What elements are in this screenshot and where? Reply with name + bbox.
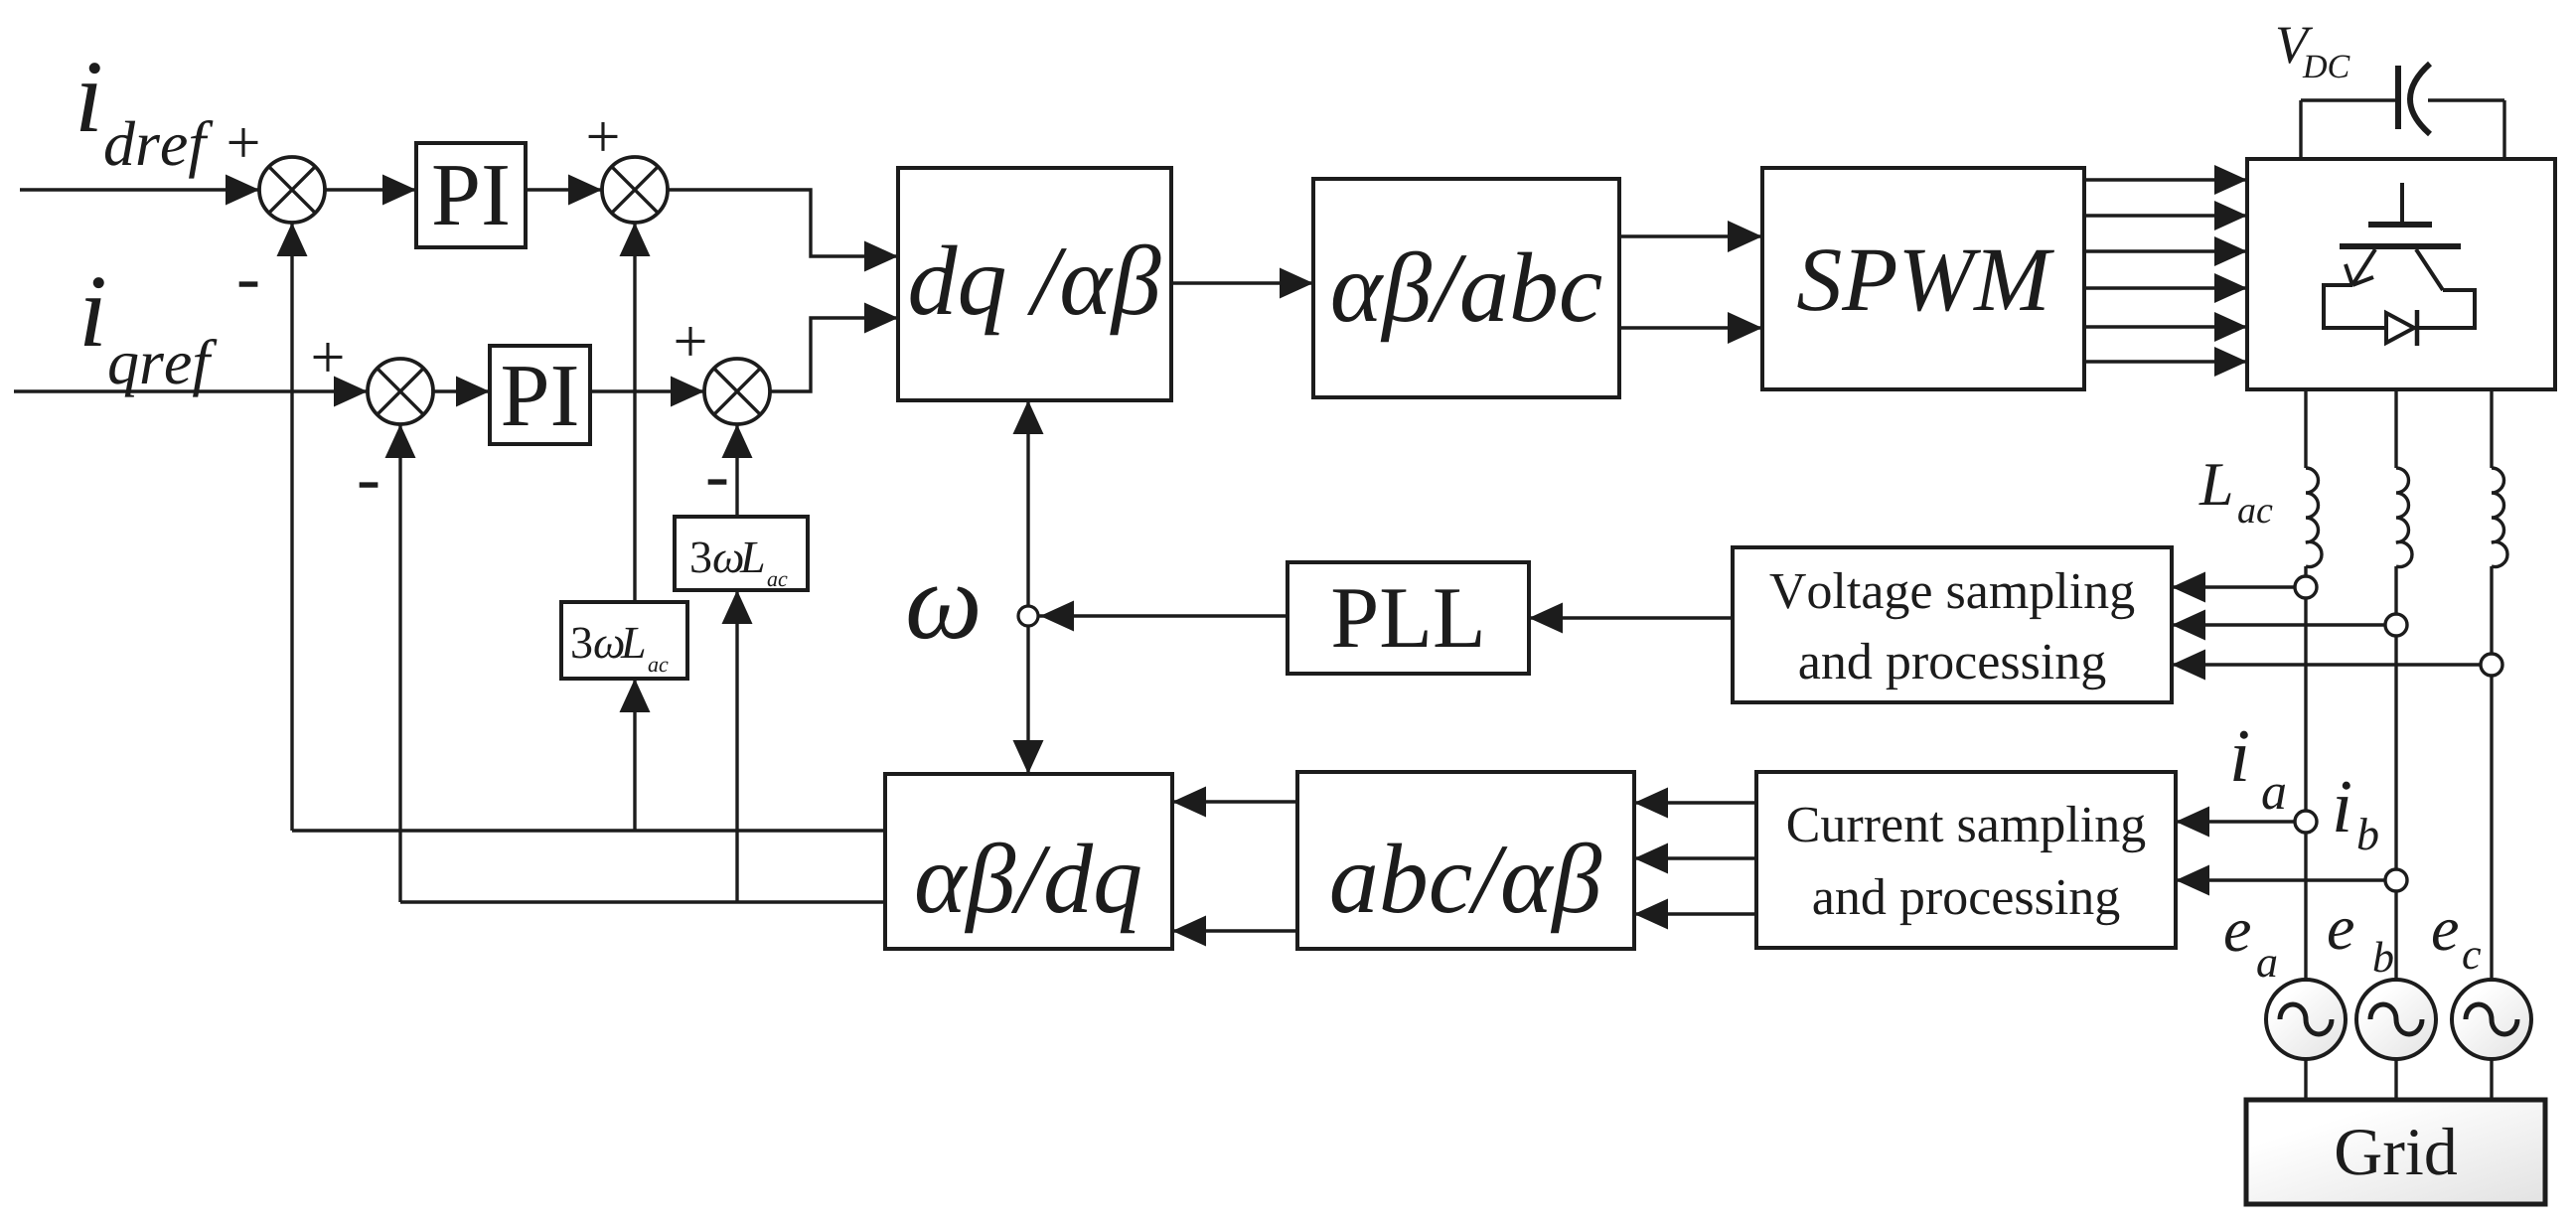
inductor Lac phase c [2492, 468, 2507, 567]
PI controller PI2 [490, 346, 590, 444]
node voltage tap b [2385, 614, 2407, 636]
node i_a label [2233, 731, 2285, 810]
wire S2 to dq/alphabeta d-input [668, 190, 898, 272]
wire dq/alphabeta to alphabeta/abc [1171, 268, 1313, 299]
wire 3wL box L1 to S4 [722, 424, 753, 517]
node current tap a [2295, 811, 2317, 833]
block current sampling and processing [1756, 772, 2176, 948]
node voltage tap a [2295, 576, 2317, 598]
block inverter bridge [2247, 159, 2555, 389]
PI controller PI1 [416, 143, 526, 247]
node V_DC label [2278, 28, 2350, 78]
wire voltage sampling to PLL [1529, 603, 1733, 634]
wire i_qref to summing junction S3 [14, 377, 368, 407]
wire source eb to grid [2394, 1059, 2397, 1100]
wire alphabeta/abc to SPWM upper [1619, 221, 1762, 252]
wire inverter output phase b upper [2394, 389, 2397, 468]
wire current tap phase a [2176, 807, 2306, 838]
capacitor VDC plates [2398, 64, 2430, 134]
wire current tap phase b [2176, 865, 2396, 896]
wire feedback line q (alphabeta/dq q output) [400, 900, 885, 903]
wire phase b from Lac to grid section [2394, 566, 2397, 980]
node current tap b [2385, 869, 2407, 891]
node i_dref input label [80, 63, 214, 178]
minus sign at S3 lower input [360, 482, 379, 487]
node e_c label [2433, 920, 2481, 970]
node i_b label [2336, 782, 2377, 850]
wire 3wL box L2 to S2 [620, 223, 651, 602]
node e_a label [2225, 921, 2276, 978]
minus sign at S4 lower input [708, 479, 727, 484]
wire S4 to dq/alphabeta q-input [770, 303, 898, 392]
summing junction S1 [259, 157, 325, 223]
block PLL [1288, 562, 1529, 674]
wire voltage tap phase a [2172, 572, 2306, 603]
plus sign at S4 input [677, 327, 705, 356]
wire omega node down to alphabeta/dq [1013, 626, 1044, 774]
wire PLL to omega node [1039, 601, 1288, 632]
node e_b label [2329, 919, 2393, 973]
wire id feedback vertical to S1 [277, 223, 308, 831]
wire abc/alphabeta to alphabeta/dq upper [1172, 787, 1297, 818]
source eb (AC source) [2356, 980, 2436, 1059]
wire abc/alphabeta to alphabeta/dq lower [1172, 916, 1297, 947]
block voltage sampling and processing [1733, 547, 2172, 702]
wire current sampling to abc/alphabeta line 2 [1634, 843, 1756, 874]
block alphabeta/abc [1313, 179, 1619, 397]
summing junction S2 [602, 157, 668, 223]
wire current sampling to abc/alphabeta line 3 [1634, 899, 1756, 930]
wire source ea to grid [2304, 1059, 2307, 1100]
node omega label [909, 586, 978, 639]
plus sign at S3 input [314, 343, 343, 372]
wire DC link right [2502, 100, 2505, 159]
plus sign at S1 input [229, 128, 258, 157]
wire DC link left [2299, 100, 2302, 159]
wire iq feedback vertical to S3 [385, 424, 416, 902]
block alphabeta/dq [885, 774, 1172, 949]
wire SPWM gate signals to inverter (6 lines) [2084, 165, 2247, 377]
wire PI1 to summing junction S2 [526, 175, 602, 206]
wire feedback line d (alphabeta/dq d output) [292, 829, 885, 832]
wire source ec to grid [2490, 1059, 2493, 1100]
inductor Lac phase b [2396, 468, 2412, 567]
plus sign at S2 input [589, 122, 618, 151]
summing junction S4 [704, 359, 770, 424]
source ea (AC source) [2266, 980, 2346, 1059]
summing junction S3 [368, 359, 433, 424]
wire voltage tap phase c [2172, 650, 2492, 681]
inductor Lac phase a [2306, 468, 2322, 567]
node L_ac label [2198, 464, 2272, 523]
block Grid [2246, 1100, 2545, 1204]
wire DC link top right [2428, 98, 2504, 101]
wire inverter output phase c upper [2490, 389, 2493, 468]
wire S1 to PI1 [325, 175, 416, 206]
wire current sampling to abc/alphabeta line 1 [1634, 788, 1756, 819]
minus sign at S1 lower input [239, 281, 258, 286]
wire DC link top left [2301, 98, 2398, 101]
node omega junction [1018, 606, 1038, 626]
source ec (AC source) [2452, 980, 2531, 1059]
block 3wLac L1 [675, 517, 808, 590]
wire decoupling branch to 3wL box L1 [722, 590, 753, 902]
block SPWM [1762, 168, 2084, 389]
block dq/alphabeta [898, 168, 1171, 400]
wire alphabeta/abc to SPWM lower [1619, 312, 1762, 344]
wire inverter output phase a upper [2304, 389, 2307, 468]
transistor IGBT with freewheel diode (inverter symbol) [2324, 183, 2475, 346]
wire phase a from Lac to grid section [2304, 566, 2307, 980]
block 3wLac L2 [561, 602, 687, 679]
wire voltage tap phase b [2172, 610, 2396, 641]
block abc/alphabeta [1297, 772, 1634, 949]
node i_qref input label [84, 277, 218, 396]
wire i_dref to summing junction S1 [20, 175, 259, 206]
wire PI2 to summing junction S4 [590, 377, 704, 407]
wire phase c from Lac to grid section [2490, 566, 2493, 980]
wire decoupling branch to 3wL box L2 [620, 679, 651, 831]
wire S3 to PI2 [433, 377, 490, 407]
wire omega node up to dq/alphabeta [1013, 400, 1044, 606]
node voltage tap c [2481, 654, 2502, 676]
